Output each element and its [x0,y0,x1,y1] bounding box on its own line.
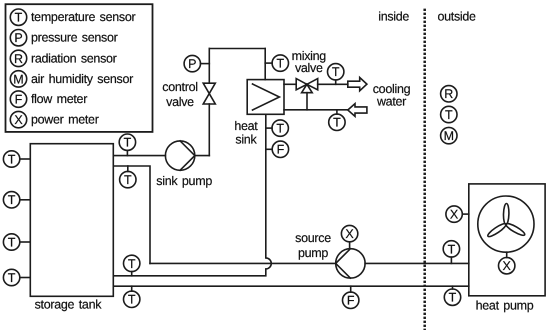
svg-text:T: T [128,293,136,307]
svg-text:outside: outside [438,10,477,24]
sensor T10 temperature [119,134,135,150]
svg-text:F: F [15,93,23,107]
sensor T10 stub [126,150,128,155]
wire: cooling water return pipe [284,109,348,111]
wire: top loop pipe [209,48,265,50]
cooling water outlet arrow [348,78,367,91]
sensor T4 temperature [329,114,345,130]
sensor X1 stub [349,242,351,249]
wire: control valve riser upper [208,49,210,84]
wire: heat sink to mixing valve [284,83,296,85]
svg-text:T: T [448,242,456,256]
wire: source line to pump [150,262,336,264]
storage tank [30,144,113,297]
svg-text:X: X [450,208,459,222]
sensor X3 stub [506,252,508,257]
control valve V1 [203,83,215,104]
sensor T4 stub [336,110,338,114]
sensor F1 stub [266,148,272,150]
svg-text:pump: pump [298,246,328,260]
sensor T8 tank left 3 stub [20,241,30,243]
wire: bottom pipe tank to heat pump [113,285,469,287]
sensor T9 temperature [3,269,19,285]
source pump P2 body [336,249,365,278]
svg-text:F: F [277,143,285,157]
sensor P1 stub [201,63,210,65]
wire: mixing valve to cooling water out [318,83,348,85]
wire: heat sink return drop with crossing hop [113,114,271,275]
sensor T12 temperature [124,255,140,271]
svg-text:X: X [345,227,354,241]
svg-text:power meter: power meter [31,113,99,127]
sensor T7 tank left 2 stub [20,199,30,201]
svg-text:T: T [445,108,453,122]
sensor T9 tank left 4 stub [20,277,30,279]
sensor T3 stub [335,80,337,84]
sensor P1 pressure [184,55,200,71]
mixing valve V2 right triangle [307,79,318,90]
wire: source pump to heat pump [365,262,469,264]
heat pump fan circle [478,196,534,252]
legend circle M [10,71,26,87]
svg-text:R: R [14,52,23,66]
sensor T2 temperature [272,55,288,71]
svg-text:pressure sensor: pressure sensor [31,31,118,45]
svg-text:source: source [295,231,331,245]
sensor T14 temperature [124,291,140,307]
svg-text:R: R [444,87,453,101]
svg-text:valve: valve [166,95,194,109]
mixing valve V2 bottom triangle [302,84,313,92]
wire: tank to sink pump [113,155,165,157]
sink pump P1 body [165,141,194,170]
legend circle F [10,91,26,107]
source pump impeller [336,249,351,278]
sensor T14 stub [131,286,133,291]
svg-text:radiation sensor: radiation sensor [31,51,117,65]
sensor M1 humidity [441,127,457,143]
svg-text:T: T [8,235,16,249]
sensor T13 stub [450,257,452,263]
sensor X2 power meter [446,206,462,222]
sensor T2 stub [265,62,272,64]
wire: control valve riser lower [208,104,210,156]
sensor T6 tank left 1 stub [20,158,30,160]
heat sink HX1 [247,80,284,115]
legend circle P [10,30,26,46]
wire: tank source outlet [113,166,150,263]
svg-text:valve: valve [295,61,323,75]
heat sink zigzag [253,84,280,110]
svg-text:sink: sink [235,132,257,146]
sensor T11 temperature [120,171,136,187]
svg-text:M: M [444,129,454,143]
sensor T12 stub [131,272,133,276]
svg-text:sink pump: sink pump [156,174,212,188]
legend box [6,4,153,132]
sensor F2 stub [350,286,352,292]
mixing valve V2 left triangle [296,79,307,90]
sensor X2 stub [462,213,469,215]
svg-text:flow meter: flow meter [31,92,87,106]
svg-text:air humidity sensor: air humidity sensor [31,72,133,86]
svg-text:X: X [503,259,512,273]
fan blade lower-left [486,222,507,239]
legend circle X [10,111,26,127]
svg-text:T: T [8,152,16,166]
sensor T6 temperature [3,151,19,167]
svg-text:T: T [124,173,132,187]
sensor T3 temperature [328,64,344,80]
sensor R1 radiation [441,86,457,102]
sensor T16 temperature [441,106,457,122]
sensor F1 flow meter [272,141,288,157]
sensor T15 stub [452,286,454,289]
inside/outside dotted boundary [423,9,426,330]
sensor T11 stub [127,166,129,171]
svg-text:P: P [188,57,196,71]
svg-text:inside: inside [378,10,409,24]
svg-text:T: T [276,122,284,136]
sensor T7 temperature [3,192,19,208]
heat pump box [469,184,545,296]
legend circle T [10,9,26,25]
svg-text:X: X [14,113,23,127]
wire: heat sink feed drop [264,49,266,80]
svg-text:T: T [332,65,340,79]
svg-text:heat: heat [234,119,258,133]
svg-text:T: T [15,11,23,25]
svg-text:M: M [13,72,23,86]
legend circle R [10,50,26,66]
sensor F2 flow meter [343,292,359,308]
sensor T8 temperature [3,234,19,250]
svg-text:storage tank: storage tank [35,298,103,312]
sensor T15 temperature [444,289,460,305]
svg-text:T: T [333,116,341,130]
wire: mixing valve bypass drop [306,93,308,110]
sensor T13 temperature [443,241,459,257]
sensor T5 temperature [272,120,288,136]
cooling water inlet arrow [348,104,367,117]
fan blade lower-right [505,222,526,237]
sink pump impeller [180,141,195,170]
svg-text:T: T [449,291,457,305]
svg-text:temperature sensor: temperature sensor [31,10,136,24]
svg-text:T: T [276,57,284,71]
svg-text:T: T [124,136,132,150]
svg-text:T: T [8,271,16,285]
svg-text:F: F [347,294,355,308]
sensor X3 power meter [499,258,515,274]
wire: sink pump outlet [195,155,210,157]
svg-text:control: control [162,80,197,94]
sensor T5 stub [266,127,272,129]
svg-text:water: water [376,95,406,109]
svg-text:P: P [14,31,22,45]
svg-text:heat pump: heat pump [476,299,534,313]
svg-text:T: T [128,257,136,271]
svg-text:T: T [8,193,16,207]
sensor X1 power meter [341,225,357,241]
fan blade up [503,203,509,224]
